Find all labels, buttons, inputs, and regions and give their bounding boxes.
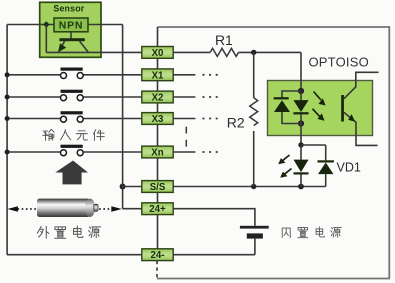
svg-text:24+: 24+ bbox=[149, 204, 166, 215]
svg-text:24-: 24- bbox=[150, 250, 164, 261]
svg-text:X1: X1 bbox=[152, 70, 164, 81]
svg-text:Sensor: Sensor bbox=[53, 3, 84, 13]
svg-text:NPN: NPN bbox=[59, 20, 84, 32]
svg-text:OPTOISO: OPTOISO bbox=[309, 54, 369, 69]
svg-text:X0: X0 bbox=[152, 48, 164, 59]
svg-text:S/S: S/S bbox=[150, 182, 166, 193]
svg-text:X3: X3 bbox=[152, 114, 164, 125]
svg-text:R2: R2 bbox=[227, 114, 245, 130]
svg-text:R1: R1 bbox=[215, 32, 233, 48]
svg-text:VD1: VD1 bbox=[337, 161, 361, 175]
svg-text:X2: X2 bbox=[152, 93, 164, 104]
svg-text:Xn: Xn bbox=[151, 148, 163, 159]
